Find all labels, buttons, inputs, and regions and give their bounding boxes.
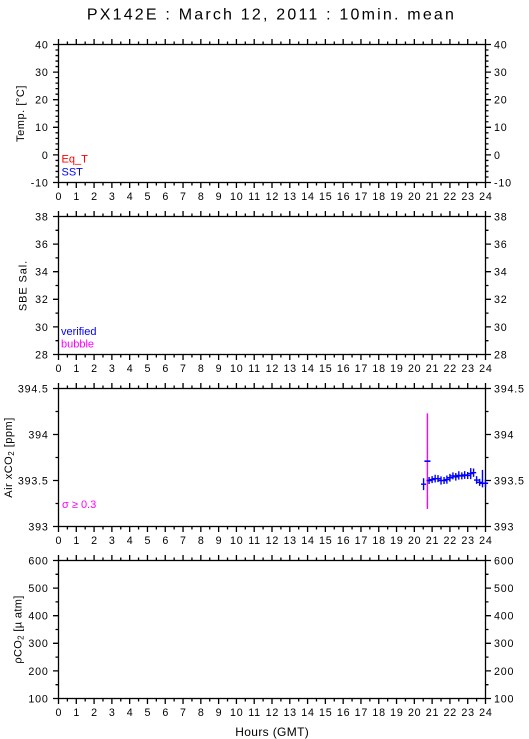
svg-text:14: 14 (301, 363, 315, 375)
svg-text:13: 13 (283, 707, 297, 719)
svg-text:393: 393 (28, 521, 48, 533)
svg-text:17: 17 (355, 363, 369, 375)
svg-text:24: 24 (479, 707, 493, 719)
svg-text:3: 3 (109, 363, 116, 375)
panel 1 frame box (59, 45, 486, 183)
panel 3 x-axis ticks (top and bottom, outward) (59, 383, 486, 532)
svg-text:11: 11 (248, 363, 261, 375)
svg-text:10: 10 (35, 122, 49, 134)
svg-text:Air xCO2 [ppm]: Air xCO2 [ppm] (3, 417, 16, 498)
svg-text:500: 500 (494, 583, 514, 595)
svg-text:1: 1 (73, 363, 80, 375)
svg-text:20: 20 (408, 191, 422, 203)
svg-text:10: 10 (494, 122, 508, 134)
svg-text:400: 400 (494, 611, 514, 623)
svg-text:30: 30 (35, 322, 49, 334)
svg-text:6: 6 (162, 707, 169, 719)
svg-text:38: 38 (35, 211, 49, 223)
svg-text:20: 20 (408, 707, 422, 719)
panel 3 right y tick labels (494, 383, 525, 533)
svg-text:30: 30 (35, 67, 49, 79)
svg-text:6: 6 (162, 535, 169, 547)
svg-text:23: 23 (461, 363, 475, 375)
svg-text:28: 28 (494, 349, 508, 361)
svg-text:4: 4 (127, 535, 134, 547)
svg-text:verified: verified (61, 326, 96, 338)
svg-text:600: 600 (494, 555, 514, 567)
panel 3 frame box (59, 389, 486, 527)
panel 2 x-axis ticks (top and bottom, outward) (59, 211, 486, 360)
panel 1 y-axis title: Temp. [deg C] (15, 85, 27, 142)
svg-text:7: 7 (180, 535, 187, 547)
svg-text:PX142E : March 12, 2011 : 10mi: PX142E : March 12, 2011 : 10min. mean (87, 7, 456, 24)
svg-text:100: 100 (494, 693, 514, 705)
svg-text:5: 5 (145, 707, 152, 719)
svg-text:Eq_T: Eq_T (62, 154, 89, 166)
svg-text:7: 7 (180, 707, 187, 719)
svg-text:21: 21 (426, 363, 440, 375)
svg-text:7: 7 (180, 363, 187, 375)
svg-text:16: 16 (337, 191, 351, 203)
svg-text:19: 19 (390, 191, 404, 203)
svg-text:30: 30 (494, 322, 508, 334)
panel 1 x-axis ticks (top and bottom, outward) (59, 39, 486, 188)
svg-text:20: 20 (494, 95, 508, 107)
svg-text:9: 9 (216, 535, 223, 547)
svg-text:10: 10 (230, 363, 244, 375)
svg-text:0: 0 (56, 535, 63, 547)
svg-text:13: 13 (283, 191, 297, 203)
svg-text:22: 22 (444, 535, 458, 547)
svg-text:2: 2 (91, 535, 98, 547)
svg-text:394.5: 394.5 (494, 383, 525, 395)
svg-text:8: 8 (198, 191, 205, 203)
svg-text:12: 12 (266, 363, 280, 375)
svg-text:SBE Sal.: SBE Sal. (18, 260, 30, 311)
svg-text:11: 11 (248, 535, 261, 547)
svg-text:4: 4 (127, 191, 134, 203)
svg-text:10: 10 (230, 707, 244, 719)
svg-text:393.5: 393.5 (494, 475, 525, 487)
panel 4 left y tick labels (28, 555, 48, 705)
svg-text:17: 17 (355, 535, 369, 547)
svg-text:0: 0 (56, 363, 63, 375)
svg-text:500: 500 (28, 583, 48, 595)
svg-text:23: 23 (461, 191, 475, 203)
panel 2 right y tick labels (494, 211, 508, 361)
legend verified (blue) (61, 326, 96, 338)
svg-text:300: 300 (28, 638, 48, 650)
svg-text:15: 15 (319, 363, 333, 375)
svg-text:12: 12 (266, 535, 280, 547)
svg-text:6: 6 (162, 363, 169, 375)
svg-text:3: 3 (109, 707, 116, 719)
svg-text:13: 13 (283, 535, 297, 547)
svg-text:σ ≥ 0.3: σ ≥ 0.3 (62, 499, 96, 511)
svg-text:5: 5 (145, 535, 152, 547)
legend Eq_T (red) (62, 154, 89, 166)
svg-text:2: 2 (91, 191, 98, 203)
panel 4 right y tick labels (494, 555, 514, 705)
svg-text:9: 9 (216, 363, 223, 375)
svg-text:15: 15 (319, 535, 333, 547)
x-axis title: Hours (GMT) (235, 725, 309, 739)
svg-text:200: 200 (494, 666, 514, 678)
svg-text:1: 1 (73, 707, 80, 719)
svg-text:0: 0 (494, 150, 501, 162)
svg-text:18: 18 (372, 707, 386, 719)
panel 1 y-axis ticks (left and right, outward) (53, 45, 491, 183)
svg-text:11: 11 (248, 707, 261, 719)
svg-text:14: 14 (301, 707, 315, 719)
svg-text:ρCO2 [µ atm]: ρCO2 [µ atm] (13, 595, 26, 663)
svg-text:21: 21 (426, 535, 440, 547)
svg-text:4: 4 (127, 707, 134, 719)
svg-text:36: 36 (494, 239, 508, 251)
svg-text:16: 16 (337, 707, 351, 719)
svg-text:2: 2 (91, 707, 98, 719)
svg-text:9: 9 (216, 707, 223, 719)
svg-text:32: 32 (494, 294, 508, 306)
data series: Air xCO2 10-min means with error bars (blue) (421, 468, 488, 490)
svg-text:0: 0 (56, 707, 63, 719)
svg-text:13: 13 (283, 363, 297, 375)
svg-text:200: 200 (28, 666, 48, 678)
svg-text:16: 16 (337, 535, 351, 547)
svg-text:24: 24 (479, 191, 493, 203)
svg-text:8: 8 (198, 535, 205, 547)
svg-text:600: 600 (28, 555, 48, 567)
panel 2 y-axis ticks (left and right, outward) (53, 217, 491, 355)
svg-text:14: 14 (301, 535, 315, 547)
svg-text:40: 40 (494, 39, 508, 51)
svg-text:394: 394 (28, 429, 48, 441)
svg-text:7: 7 (180, 191, 187, 203)
svg-text:9: 9 (216, 191, 223, 203)
svg-text:394.5: 394.5 (18, 383, 49, 395)
svg-text:12: 12 (266, 707, 280, 719)
svg-text:300: 300 (494, 638, 514, 650)
svg-text:400: 400 (28, 611, 48, 623)
svg-text:5: 5 (145, 363, 152, 375)
panel 1 left y tick labels (31, 39, 49, 189)
panel 1 right y tick labels (494, 39, 512, 189)
svg-text:100: 100 (28, 693, 48, 705)
svg-text:2: 2 (91, 363, 98, 375)
panel 4 frame box (59, 561, 486, 699)
svg-text:4: 4 (127, 363, 134, 375)
legend bubble (magenta) (61, 339, 94, 351)
panel 3 left y tick labels (18, 383, 49, 533)
svg-text:20: 20 (408, 363, 422, 375)
svg-text:30: 30 (494, 67, 508, 79)
svg-text:28: 28 (35, 349, 49, 361)
svg-text:17: 17 (355, 707, 369, 719)
svg-text:-10: -10 (31, 177, 49, 189)
svg-text:22: 22 (444, 191, 458, 203)
svg-text:40: 40 (35, 39, 49, 51)
svg-text:394: 394 (494, 429, 514, 441)
svg-text:-10: -10 (494, 177, 512, 189)
svg-text:36: 36 (35, 239, 49, 251)
panel 1 x tick labels 0-24 (56, 191, 493, 203)
panel 3 y-axis title: Air xCO2 [ppm] (3, 417, 16, 498)
svg-text:5: 5 (145, 191, 152, 203)
svg-text:20: 20 (35, 95, 49, 107)
svg-text:14: 14 (301, 191, 315, 203)
svg-text:8: 8 (198, 707, 205, 719)
panel 3 y-axis ticks (left and right, outward) (53, 389, 491, 527)
svg-text:SST: SST (62, 167, 84, 179)
svg-text:34: 34 (494, 267, 508, 279)
legend sigma >= 0.3 (magenta) (62, 499, 96, 511)
data: mean dash of flagged point (blue) (424, 460, 430, 462)
svg-text:393.5: 393.5 (18, 475, 49, 487)
svg-text:24: 24 (479, 363, 493, 375)
svg-text:22: 22 (444, 707, 458, 719)
svg-text:8: 8 (198, 363, 205, 375)
svg-text:15: 15 (319, 191, 333, 203)
svg-text:32: 32 (35, 294, 49, 306)
svg-text:12: 12 (266, 191, 280, 203)
svg-text:20: 20 (408, 535, 422, 547)
svg-text:0: 0 (42, 150, 49, 162)
svg-text:1: 1 (73, 535, 80, 547)
svg-text:17: 17 (355, 191, 369, 203)
svg-text:10: 10 (230, 191, 244, 203)
svg-text:34: 34 (35, 267, 49, 279)
svg-text:19: 19 (390, 535, 404, 547)
panel 2 x tick labels 0-24 (56, 363, 493, 375)
svg-text:11: 11 (248, 191, 261, 203)
panel 4 x tick labels 0-24 (56, 707, 493, 719)
svg-text:0: 0 (56, 191, 63, 203)
svg-text:38: 38 (494, 211, 508, 223)
svg-text:Temp. [°C]: Temp. [°C] (15, 85, 27, 142)
data: flagged high-sigma point at ~20.7h (magenta error bar) (426, 413, 428, 509)
svg-text:19: 19 (390, 707, 404, 719)
svg-text:23: 23 (461, 707, 475, 719)
svg-text:24: 24 (479, 535, 493, 547)
svg-text:15: 15 (319, 707, 333, 719)
svg-text:21: 21 (426, 191, 440, 203)
svg-text:bubble: bubble (61, 339, 94, 351)
panel 4 y-axis ticks (left and right, outward) (53, 561, 491, 699)
svg-text:1: 1 (73, 191, 80, 203)
svg-text:393: 393 (494, 521, 514, 533)
svg-text:10: 10 (230, 535, 244, 547)
svg-text:16: 16 (337, 363, 351, 375)
svg-text:Hours (GMT): Hours (GMT) (235, 725, 309, 739)
svg-text:21: 21 (426, 707, 440, 719)
panel 4 x-axis ticks (top and bottom, outward) (59, 555, 486, 704)
panel 2 frame box (59, 217, 486, 355)
panel 2 left y tick labels (35, 211, 49, 361)
panel 4 y-axis title: rho CO2 [u atm] (13, 595, 26, 663)
svg-text:3: 3 (109, 191, 116, 203)
svg-text:18: 18 (372, 363, 386, 375)
svg-text:22: 22 (444, 363, 458, 375)
panel 3 x tick labels 0-24 (56, 535, 493, 547)
svg-text:3: 3 (109, 535, 116, 547)
panel 2 y-axis title: SBE Sal. (18, 260, 30, 311)
svg-text:6: 6 (162, 191, 169, 203)
svg-text:18: 18 (372, 191, 386, 203)
svg-text:23: 23 (461, 535, 475, 547)
svg-text:18: 18 (372, 535, 386, 547)
svg-text:19: 19 (390, 363, 404, 375)
legend SST (blue) (62, 167, 84, 179)
